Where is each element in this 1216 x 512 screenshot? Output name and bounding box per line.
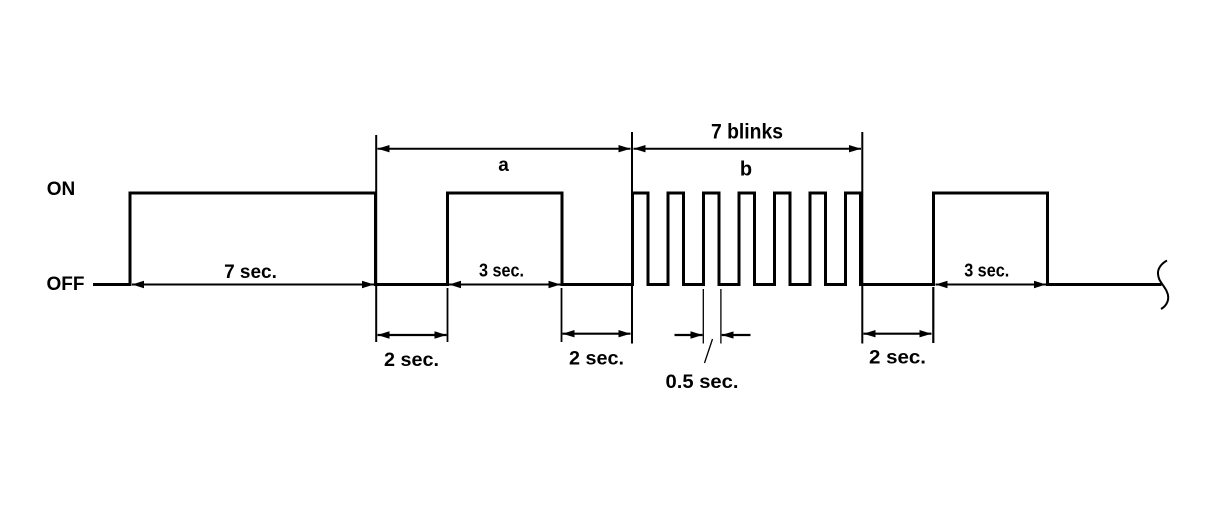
- wire OFF trailing segment: [1046, 283, 1162, 286]
- waveform blink pulse 4: [739, 193, 755, 286]
- extension line at x=862 (end of blinks): [861, 132, 863, 344]
- wire OFF gap 2 sec (2): [561, 283, 635, 286]
- dimension line 3 sec (left): [449, 284, 561, 286]
- extension line at x=720.9 (0.5 sec right): [720, 289, 722, 344]
- break squiggle: [1158, 261, 1168, 310]
- extension line at x=561.5 below baseline: [561, 288, 563, 342]
- extension line at x=703.3 (0.5 sec left): [702, 289, 704, 344]
- waveform blink pulse 2: [668, 193, 684, 286]
- waveform blink pulse 7: [846, 193, 861, 286]
- wire blink gap 3: [718, 283, 741, 286]
- svg-text:3 sec.: 3 sec.: [964, 260, 1009, 280]
- waveform blink pulse 1: [633, 193, 649, 286]
- waveform pulse 1 (7 sec ON): [130, 193, 376, 286]
- waveform blink pulse 3: [704, 193, 720, 286]
- wire OFF lead segment: [93, 283, 130, 286]
- wire OFF gap 2 sec (3): [860, 283, 936, 286]
- dimension line a: [378, 148, 631, 150]
- svg-text:OFF: OFF: [47, 274, 85, 295]
- dimension arrow 0.5 sec right segment: [722, 334, 751, 336]
- svg-text:2 sec.: 2 sec.: [569, 349, 624, 370]
- dimension line 3 sec (right): [936, 284, 1047, 286]
- svg-text:7 sec.: 7 sec.: [224, 262, 277, 283]
- dimension line 7 sec: [132, 284, 374, 286]
- svg-text:2 sec.: 2 sec.: [869, 348, 926, 369]
- wire blink gap 1: [647, 283, 670, 286]
- dimension line 2 sec (2): [563, 333, 631, 335]
- svg-text:a: a: [498, 155, 509, 176]
- dimension arrow 0.5 sec left segment: [675, 334, 703, 336]
- extension line at x=632 (start of blinks): [631, 132, 633, 344]
- dimension line b: [634, 148, 862, 150]
- waveform blink pulse 5: [775, 193, 791, 286]
- wire OFF gap 2 sec (1): [374, 283, 449, 286]
- wire blink gap 5: [789, 283, 812, 286]
- dimension line 2 sec (3): [864, 333, 932, 335]
- wire blink gap 2: [682, 283, 705, 286]
- svg-text:0.5 sec.: 0.5 sec.: [666, 372, 739, 393]
- extension line at x=447.5 below baseline: [447, 288, 449, 342]
- extension line at x=933.3 below baseline: [932, 287, 934, 343]
- extension line at x=376 (end of pulse 1): [375, 135, 377, 342]
- svg-text:2 sec.: 2 sec.: [384, 350, 439, 371]
- svg-text:7 blinks: 7 blinks: [711, 121, 783, 144]
- svg-text:b: b: [740, 159, 752, 181]
- waveform pulse 3 (3 sec ON): [934, 193, 1048, 286]
- svg-text:ON: ON: [47, 179, 76, 200]
- waveform pulse 2 (3 sec ON): [448, 193, 563, 286]
- leader line 0.5 sec: [705, 339, 713, 363]
- waveform blink pulse 6: [810, 193, 826, 286]
- wire blink gap 4: [753, 283, 776, 286]
- svg-text:3 sec.: 3 sec.: [479, 260, 524, 280]
- dimension line 2 sec (1): [378, 334, 447, 336]
- wire blink gap 6: [824, 283, 847, 286]
